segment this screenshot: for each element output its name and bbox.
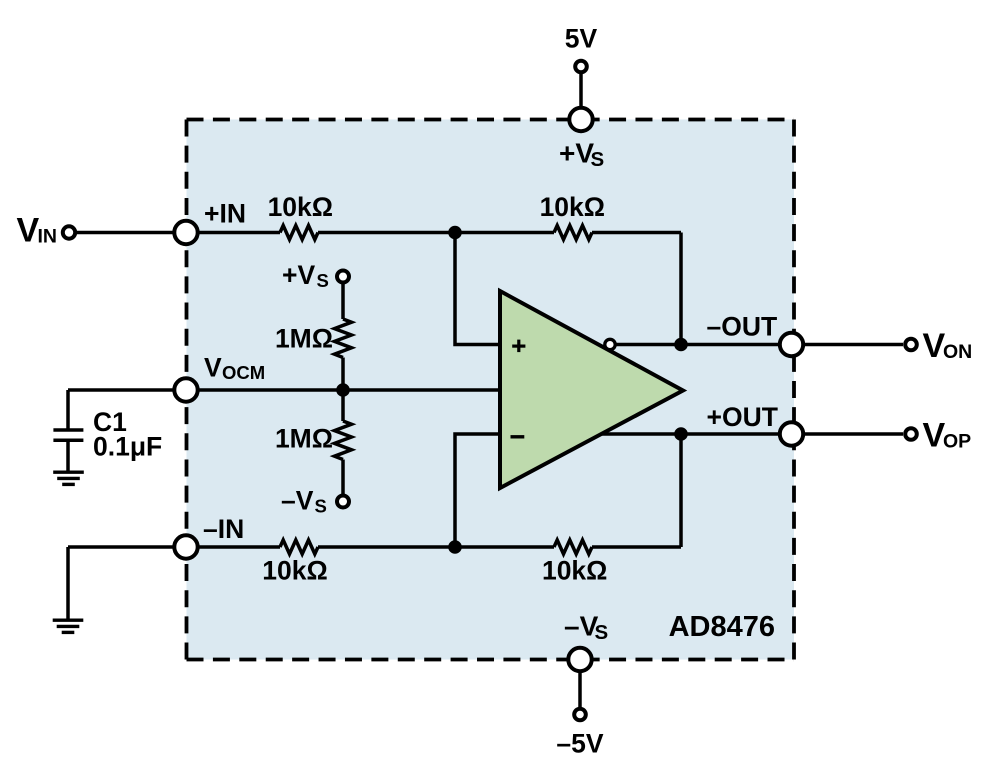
wire ground lead (below -IN)	[66, 547, 70, 619]
pin +OUT	[780, 422, 803, 445]
svg-text:1MΩ: 1MΩ	[275, 424, 333, 454]
svg-text:OP: OP	[943, 431, 971, 453]
svg-text:1MΩ: 1MΩ	[275, 323, 333, 353]
svg-text:0.1μF: 0.1μF	[93, 432, 162, 462]
svg-text:+OUT: +OUT	[707, 402, 778, 432]
svg-text:10kΩ: 10kΩ	[262, 556, 327, 586]
IC boundary AD8476 (shaded body)	[187, 120, 795, 660]
junction node B (-IN / feedback)	[448, 540, 462, 554]
terminal V_IN	[63, 226, 75, 238]
op-amp U1	[500, 291, 683, 488]
IC boundary dashed right edge	[792, 120, 796, 660]
svg-text:+IN: +IN	[204, 199, 246, 229]
svg-text:+V: +V	[559, 138, 594, 169]
junction node V_OCM divider	[336, 383, 350, 397]
svg-text:IN: IN	[38, 226, 58, 248]
op-amp - input marker	[511, 435, 525, 438]
wire divider middle	[341, 358, 345, 422]
svg-text:10kΩ: 10kΩ	[268, 192, 333, 222]
svg-text:5V: 5V	[565, 24, 598, 54]
svg-text:AD8476: AD8476	[669, 611, 775, 643]
ground (below -IN)	[53, 620, 84, 632]
junction node on -OUT	[674, 338, 688, 352]
svg-text:10kΩ: 10kΩ	[540, 192, 605, 222]
wire -IN row segment 1	[68, 545, 280, 549]
svg-text:OCM: OCM	[222, 362, 265, 383]
resistor R2 1M (lower)	[335, 421, 352, 460]
capacitor C1 plates	[53, 428, 83, 432]
wire +IN row segment 3	[592, 231, 681, 235]
svg-text:–5V: –5V	[556, 729, 603, 759]
svg-text:–V: –V	[564, 611, 599, 642]
terminal +V_S divider	[337, 271, 349, 283]
wire capacitor top lead	[66, 390, 70, 429]
resistor R_f1 10k (top-right)	[554, 226, 592, 240]
wire +IN row segment 2	[318, 231, 554, 235]
wire -OUT row	[613, 343, 903, 347]
wire V_OCM row	[68, 388, 500, 392]
ground (below C1)	[53, 472, 84, 484]
resistor R_f2 10k (bottom-right)	[554, 540, 592, 554]
terminal V_OP	[905, 428, 917, 440]
svg-text:–IN: –IN	[203, 514, 244, 544]
wire +IN row segment 1	[186, 231, 280, 235]
wire divider lower lead	[341, 460, 345, 495]
wire feedback top vertical	[679, 233, 683, 345]
svg-text:+V: +V	[282, 260, 315, 290]
svg-text:V: V	[17, 212, 40, 250]
wire 5V supply lead	[579, 73, 583, 108]
svg-text:S: S	[595, 621, 609, 644]
pin +IN	[174, 221, 197, 244]
resistor R_g2 10k (bottom-left)	[280, 540, 318, 554]
svg-text:–OUT: –OUT	[707, 312, 778, 342]
IC boundary dashed left edge	[185, 120, 189, 660]
pin -V_S	[568, 648, 591, 671]
pin +V_S	[569, 108, 592, 131]
pin -IN	[174, 535, 197, 558]
terminal V_ON	[905, 339, 917, 351]
junction node on +OUT	[674, 427, 688, 441]
svg-text:–V: –V	[281, 486, 314, 516]
wire -IN row segment 3	[592, 545, 681, 549]
resistor R_g1 10k (top-left)	[280, 226, 318, 240]
wire divider upper lead	[341, 284, 345, 319]
resistor R1 1M (upper)	[335, 319, 352, 358]
IC boundary dashed bottom edge	[187, 658, 795, 662]
op-amp + input marker	[512, 340, 525, 353]
wire V_IN lead	[69, 231, 186, 235]
wire feedback bottom vertical	[679, 434, 683, 547]
svg-text:10kΩ: 10kΩ	[542, 556, 607, 586]
wire -IN row segment 2	[318, 545, 554, 549]
wire from node A down to op-amp + input	[455, 233, 500, 345]
terminal -5V	[574, 709, 586, 721]
inversion bubble on -OUT	[605, 339, 615, 349]
wire -5V supply lead	[578, 671, 582, 707]
svg-text:S: S	[315, 496, 327, 517]
wire capacitor bottom lead	[66, 442, 70, 471]
junction node A (+IN / feedback)	[448, 226, 462, 240]
terminal -V_S divider	[337, 496, 349, 508]
svg-text:ON: ON	[943, 341, 972, 363]
wire +OUT row	[601, 432, 903, 436]
terminal 5V	[575, 61, 587, 73]
pin V_OCM	[174, 378, 197, 401]
svg-text:S: S	[591, 148, 605, 171]
svg-text:S: S	[317, 270, 329, 291]
IC boundary dashed top edge	[187, 118, 795, 122]
pin -OUT	[780, 333, 803, 356]
wire from node B up to op-amp - input	[455, 434, 500, 547]
svg-text:V: V	[204, 353, 222, 383]
